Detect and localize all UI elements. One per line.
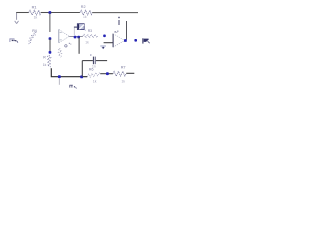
wire U1 output [69, 36, 83, 38]
svg-text:R2: R2 [81, 5, 86, 9]
resistor R3 [83, 29, 98, 45]
stub below junction [58, 78, 60, 84]
resistor R5 (vertical) [43, 55, 51, 68]
wire top right [92, 12, 138, 14]
junction at U1 output [74, 36, 77, 39]
wire R5 bottom corner [51, 68, 87, 76]
wire bottom right [126, 72, 134, 74]
node A junction [49, 11, 52, 14]
svg-text:1k: 1k [85, 41, 89, 45]
wire top left [16, 12, 29, 14]
junction at U2 output [124, 39, 127, 42]
svg-text:1k: 1k [43, 63, 47, 67]
node C junction [49, 51, 52, 54]
wire to junction [100, 73, 113, 75]
svg-text:R3: R3 [88, 29, 92, 33]
junction at riser [80, 75, 83, 78]
wire down to U2 output node [126, 21, 128, 40]
ground [100, 46, 106, 49]
output port flag [143, 38, 150, 43]
junction dot floating [103, 35, 106, 38]
wire R1 to node A [41, 12, 49, 14]
svg-text:R4: R4 [32, 29, 37, 33]
junction on bottom rail [58, 75, 61, 78]
resistor R6 (vertical, light) [58, 43, 71, 58]
wire from flag node down [78, 37, 80, 54]
wire capacitor left [82, 60, 93, 62]
op-amp U1 [59, 29, 69, 42]
resistor R4 (diagonal) [29, 29, 37, 44]
input label ui [10, 38, 18, 42]
junction dot [106, 72, 109, 75]
resistor R2 [80, 5, 92, 19]
resistor R7 (tilted, light) [87, 68, 100, 84]
svg-text:1k: 1k [93, 80, 97, 84]
wire node A to R2 [51, 12, 80, 14]
svg-text:R7: R7 [121, 66, 126, 70]
input port arrow [15, 13, 19, 24]
wire capacitor right [96, 60, 107, 62]
junction dot right [134, 39, 137, 42]
svg-text:c: c [90, 53, 92, 57]
op-amp U2 [113, 31, 125, 48]
junction at flag branch [77, 36, 80, 39]
wire U2 input [104, 42, 114, 44]
node B junction [49, 37, 52, 40]
svg-text:R1: R1 [32, 4, 37, 9]
svg-text:1k: 1k [34, 16, 38, 20]
resistor R8 [113, 66, 126, 84]
label below rail [70, 85, 77, 89]
svg-text:R6: R6 [89, 68, 94, 72]
wire stub down from node A [49, 13, 51, 32]
resistor R1 [29, 4, 41, 19]
label above U2 [114, 31, 117, 34]
svg-text:1k: 1k [83, 15, 87, 19]
net flag F1 [74, 24, 86, 36]
svg-text:R: R [43, 55, 46, 59]
capacitor C1 [90, 53, 96, 68]
svg-text:1k: 1k [122, 79, 126, 83]
wire node B to node C [49, 39, 51, 52]
riser wire [81, 61, 83, 77]
label i1 [118, 17, 119, 25]
